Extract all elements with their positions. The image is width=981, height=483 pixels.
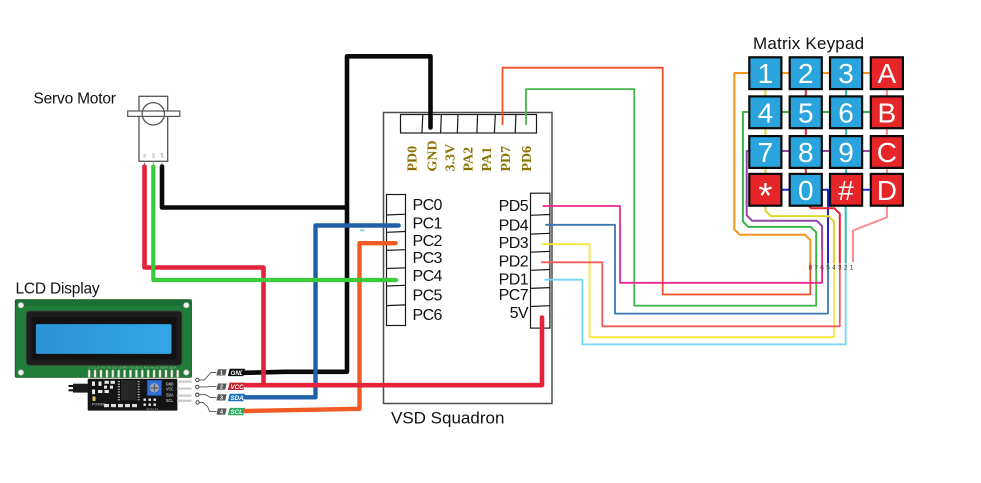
right pin header J3 — [531, 193, 550, 328]
svg-text:PD7: PD7 — [499, 146, 514, 172]
svg-text:PC0: PC0 — [413, 197, 443, 214]
svg-text:PD0: PD0 — [406, 146, 421, 172]
pin tag 3 — [216, 394, 226, 401]
left pin labels PC0-PC6 — [413, 197, 443, 324]
wire: keypad pin3 to PD2 (salmon red) — [541, 262, 840, 326]
pin tag 2 — [216, 384, 226, 391]
svg-text:PA2: PA2 — [461, 147, 476, 172]
key 3 — [830, 57, 862, 89]
svg-text:2: 2 — [798, 58, 814, 89]
svg-text:8: 8 — [798, 137, 814, 168]
wire: keypad pin2 to PD1 (light cyan) — [544, 263, 845, 344]
svg-text:VSD Squadron: VSD Squadron — [391, 409, 504, 428]
LCD 16-pin header — [88, 370, 179, 378]
svg-text:C: C — [877, 137, 897, 168]
keypad pin numbers 8 7 6 5 4 3 2 1 — [808, 264, 853, 271]
svg-text:D: D — [877, 175, 897, 206]
svg-text:6: 6 — [838, 97, 854, 128]
pin tag 4 — [216, 408, 226, 415]
trim potentiometer RV1 — [147, 380, 161, 395]
svg-text:*: * — [758, 175, 772, 216]
key 0 — [790, 174, 822, 206]
svg-text:SCL: SCL — [231, 409, 244, 416]
VSD Squadron board U1 — [384, 113, 553, 404]
key 8 — [790, 136, 822, 168]
svg-text:VCC: VCC — [231, 384, 245, 391]
svg-text:5: 5 — [798, 97, 814, 128]
svg-text:sig: sig — [143, 154, 147, 158]
svg-text:PC3: PC3 — [413, 250, 443, 267]
svg-text:1 2 L3 Y0 Y5 U2 I3 P5 Y0 D0 1: 1 2 L3 Y0 Y5 U2 I3 P5 Y0 D0 1 Fa Ya Gi B… — [88, 367, 177, 370]
svg-text:2: 2 — [844, 264, 848, 271]
svg-text:SDA: SDA — [231, 395, 245, 402]
svg-text:3: 3 — [838, 264, 842, 271]
connector leader lines — [199, 373, 216, 412]
left pin header J2 — [387, 195, 406, 326]
svg-text:PC5: PC5 — [413, 287, 443, 304]
key * — [749, 174, 781, 216]
keypad column wire C3 (teal) — [845, 73, 847, 263]
key 1 — [749, 57, 781, 89]
wire: keypad pin4 to PD3 (yellow) — [542, 244, 834, 337]
servo pin stubs — [145, 161, 163, 167]
key 6 — [830, 96, 862, 128]
key 7 — [749, 136, 781, 168]
svg-text:3: 3 — [838, 58, 854, 89]
svg-text:PD6: PD6 — [520, 146, 535, 172]
net label SCL — [228, 408, 245, 416]
svg-text:5V: 5V — [510, 305, 529, 322]
svg-text:PD2: PD2 — [499, 254, 529, 271]
wire: keypad pin7 to PD6 (green) — [526, 89, 816, 306]
I2C backpack U2 — [69, 379, 192, 411]
svg-text:4: 4 — [832, 264, 836, 271]
keypad row wire R4 (blue) — [755, 190, 887, 263]
backpack small components — [92, 381, 115, 401]
svg-text:GND: GND — [166, 384, 174, 388]
wire: servo GND / LCD GND to board GND (black) — [162, 56, 431, 373]
key 5 — [790, 96, 822, 128]
svg-text:PC2: PC2 — [413, 233, 443, 250]
svg-text:POWER: POWER — [92, 403, 106, 407]
svg-text:PC6: PC6 — [413, 307, 443, 324]
servo motor M1 — [128, 96, 180, 161]
stray mark (cyan dash) — [360, 230, 365, 232]
svg-text:8: 8 — [808, 264, 812, 271]
keypad column wire C1 (yellow) — [765, 73, 834, 263]
keypad row wire R1 (orange) — [734, 73, 887, 263]
LCD pin name row — [88, 367, 177, 370]
wire: LCD SCL to PC2 (orange) — [246, 243, 396, 411]
svg-text:1: 1 — [850, 264, 854, 271]
svg-text:gnd: gnd — [160, 152, 164, 158]
wire: servo power / LCD VCC to board 5V (red) — [145, 167, 543, 386]
net label VCC — [228, 383, 245, 391]
svg-text:SCL: SCL — [166, 400, 174, 404]
svg-text:9: 9 — [838, 137, 854, 168]
svg-text:Servo Motor: Servo Motor — [34, 91, 116, 108]
svg-text:PC1: PC1 — [413, 215, 443, 232]
svg-text:2: 2 — [220, 385, 223, 391]
svg-text:PA1: PA1 — [480, 147, 495, 172]
key C — [871, 136, 903, 168]
wire: LCD SDA to PC1 (blue) — [246, 226, 399, 398]
net label GND — [228, 369, 245, 377]
keypad row wire R3 (purple) — [747, 151, 887, 251]
key 9 — [830, 136, 862, 168]
svg-text:B: B — [878, 97, 897, 128]
svg-text:#: # — [838, 175, 854, 206]
key 4 — [749, 96, 781, 128]
svg-text:PC4: PC4 — [413, 268, 443, 285]
svg-text:3: 3 — [220, 395, 223, 401]
backpack I2C pins — [177, 381, 192, 402]
key D — [871, 174, 903, 206]
keypad column wire C2 (red) — [806, 73, 840, 263]
pin tag 1 — [216, 369, 226, 376]
LCD module LCD1 — [15, 300, 191, 378]
wire: keypad pin6 to PD5 (magenta) — [543, 206, 823, 283]
svg-text:PD4: PD4 — [499, 217, 529, 234]
svg-text:Matrix Keypad: Matrix Keypad — [753, 34, 864, 53]
keypad column wire C4 (salmon) — [853, 73, 887, 262]
key A — [871, 57, 903, 89]
svg-text:VCC: VCC — [166, 389, 174, 393]
connector leader dots — [196, 378, 200, 404]
net label SDA — [228, 394, 245, 402]
svg-text:6: 6 — [820, 264, 824, 271]
svg-text:A0 A1 A2: A0 A1 A2 — [146, 407, 159, 411]
top pin header J1 — [401, 115, 537, 134]
svg-text:GND: GND — [426, 140, 441, 171]
svg-text:0: 0 — [798, 175, 814, 206]
wire: keypad pin8 to PD7 (salmon-orange) — [503, 68, 811, 295]
svg-text:3.3V: 3.3V — [443, 144, 458, 172]
wire: keypad pin5 to PD4 (steel blue) — [545, 225, 828, 314]
svg-text:SDA: SDA — [166, 394, 174, 398]
svg-text:LCD Display: LCD Display — [16, 280, 100, 297]
top pin labels PD0 GND 3.3V PA2 PA1 PD7 PD6 — [406, 140, 535, 171]
keypad row wire R2 (green) — [743, 112, 887, 263]
key B — [871, 96, 903, 128]
svg-text:1: 1 — [220, 370, 223, 376]
svg-text:PD3: PD3 — [499, 235, 529, 252]
svg-text:PC7: PC7 — [499, 287, 529, 304]
svg-text:4: 4 — [758, 97, 774, 128]
svg-text:7: 7 — [758, 137, 774, 168]
svg-text:PD5: PD5 — [499, 198, 529, 215]
svg-text:7: 7 — [814, 264, 818, 271]
key # — [830, 174, 862, 206]
key 2 — [790, 57, 822, 89]
wire: servo signal to PC4 (green) — [153, 167, 396, 281]
keypad 4x4 keys — [749, 57, 903, 216]
right pin labels PD5 PD4 PD3 PD2 PD1 PC7 5V — [499, 198, 529, 322]
svg-text:A: A — [878, 58, 897, 89]
svg-text:4: 4 — [220, 409, 223, 415]
svg-text:5: 5 — [826, 264, 830, 271]
svg-text:1: 1 — [758, 58, 774, 89]
servo pin labels — [143, 152, 165, 158]
